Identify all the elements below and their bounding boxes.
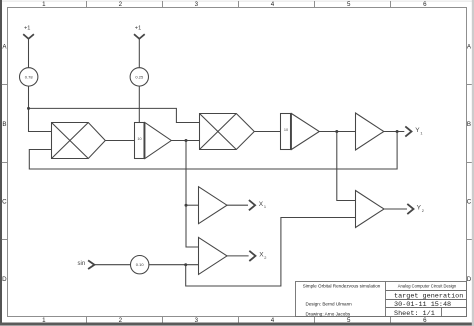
junction dot	[185, 204, 188, 207]
svg-text:1: 1	[42, 1, 46, 8]
wire T2 to P2	[138, 39, 140, 68]
ruler ticks right	[467, 85, 472, 240]
wire to A4 upper input	[337, 132, 356, 201]
output terminal Y1	[405, 126, 411, 136]
wire A3 to output X2	[227, 255, 249, 257]
svg-text:sin: sin	[78, 261, 86, 267]
wire A1 to output Y1	[384, 131, 405, 133]
svg-text:1: 1	[420, 130, 422, 135]
input terminal sin	[88, 260, 94, 269]
svg-text:30-01-11 15:48: 30-01-11 15:48	[394, 301, 451, 309]
potentiometer P1 0.78	[20, 68, 38, 86]
output terminal Y2	[407, 204, 413, 214]
svg-text:1: 1	[264, 204, 266, 209]
multiplier M2	[200, 114, 255, 150]
svg-text:Sheet: 1/1: Sheet: 1/1	[394, 310, 435, 318]
+1 terminal T2	[134, 34, 145, 39]
junction dot	[185, 139, 188, 142]
svg-text:6: 6	[423, 1, 427, 8]
wire T1 to P1	[28, 39, 30, 68]
wire I1 to M2 lower input	[171, 140, 200, 142]
svg-text:10: 10	[137, 137, 141, 141]
label Y2	[417, 205, 424, 213]
svg-text:0.25: 0.25	[135, 74, 144, 79]
label X2	[259, 252, 266, 260]
label Y1	[415, 127, 422, 135]
output terminal X1	[249, 200, 255, 210]
wire branch to X1 input	[186, 204, 199, 206]
window edge top	[2, 0, 472, 3]
svg-text:2: 2	[119, 317, 123, 324]
inverter A1 (Y1)	[356, 113, 384, 150]
ruler ticks top	[87, 1, 391, 8]
svg-text:D: D	[2, 276, 7, 283]
junction dot	[184, 263, 187, 266]
svg-text:D: D	[467, 276, 472, 283]
window edge left	[0, 0, 2, 326]
svg-text:4: 4	[271, 1, 275, 8]
svg-text:Analog Computer Circuit Design: Analog Computer Circuit Design	[398, 284, 457, 289]
integrator I1	[135, 123, 172, 159]
svg-text:3: 3	[195, 1, 199, 8]
svg-text:C: C	[467, 198, 472, 205]
ruler ticks bottom	[87, 317, 391, 323]
svg-text:3: 3	[195, 317, 199, 324]
output terminal X2	[249, 251, 255, 261]
svg-text:0.78: 0.78	[25, 74, 34, 79]
integrator I2	[281, 114, 320, 150]
svg-text:4: 4	[271, 317, 275, 324]
svg-text:5: 5	[347, 317, 351, 324]
svg-text:+1: +1	[24, 26, 30, 32]
svg-text:2: 2	[422, 208, 424, 213]
wire sin to P3	[95, 264, 131, 266]
svg-text:10: 10	[284, 128, 288, 132]
+1 terminal T1	[23, 34, 34, 39]
svg-text:2: 2	[119, 1, 123, 8]
svg-text:2: 2	[264, 255, 266, 260]
potentiometer P3 0.10	[131, 256, 149, 274]
potentiometer P2 0.25	[130, 68, 148, 86]
inverter A4 (Y2)	[356, 191, 385, 228]
ruler ticks left	[2, 85, 8, 240]
wire A2 to output X1	[227, 204, 248, 206]
title block	[296, 282, 467, 317]
svg-text:5: 5	[347, 1, 351, 8]
wire M1 to I1	[105, 140, 134, 142]
ruler letters right	[467, 43, 472, 282]
junction dot	[27, 107, 30, 110]
svg-text:0.10: 0.10	[136, 262, 145, 267]
inverter A3 (X2)	[199, 237, 228, 274]
svg-text:C: C	[2, 198, 7, 205]
inverter A2 (X1)	[199, 187, 228, 224]
window edge bottom	[0, 323, 474, 326]
svg-text:Design: Bernd Ulmann: Design: Bernd Ulmann	[306, 301, 353, 306]
multiplier M1	[52, 123, 106, 159]
wire to A4 lower input	[186, 218, 356, 287]
ruler numbers top	[42, 1, 427, 8]
wire A4 to output Y2	[384, 208, 407, 210]
wire P3 to X2 lower input	[149, 264, 199, 266]
junction dot	[335, 130, 338, 133]
svg-text:Drawing: Arno Jacobs: Drawing: Arno Jacobs	[306, 311, 351, 316]
ruler letters left	[2, 43, 7, 282]
ruler numbers bottom	[42, 317, 427, 324]
label X1	[259, 201, 266, 209]
wire down to X1 / X2 inputs	[186, 141, 199, 248]
svg-text:B: B	[2, 121, 6, 128]
svg-text:+1: +1	[135, 26, 141, 32]
wire M2 to I2	[254, 131, 281, 133]
wire I2 to inverter A1	[319, 131, 356, 133]
feedback wire Y1 to M1 lower input	[29, 132, 397, 170]
wire branch to M2 upper input	[29, 108, 201, 122]
junction dot	[396, 130, 399, 133]
svg-text:1: 1	[42, 317, 46, 324]
svg-text:target generation: target generation	[394, 293, 463, 301]
window edge right	[472, 0, 474, 326]
svg-text:B: B	[467, 121, 471, 128]
wire P2 to integrator I1 IC input	[138, 86, 140, 122]
svg-text:6: 6	[423, 317, 427, 324]
svg-text:Simple Orbital Rendezvous simu: Simple Orbital Rendezvous simulation	[303, 283, 381, 288]
wire P1 down to M1 upper input	[29, 86, 53, 131]
